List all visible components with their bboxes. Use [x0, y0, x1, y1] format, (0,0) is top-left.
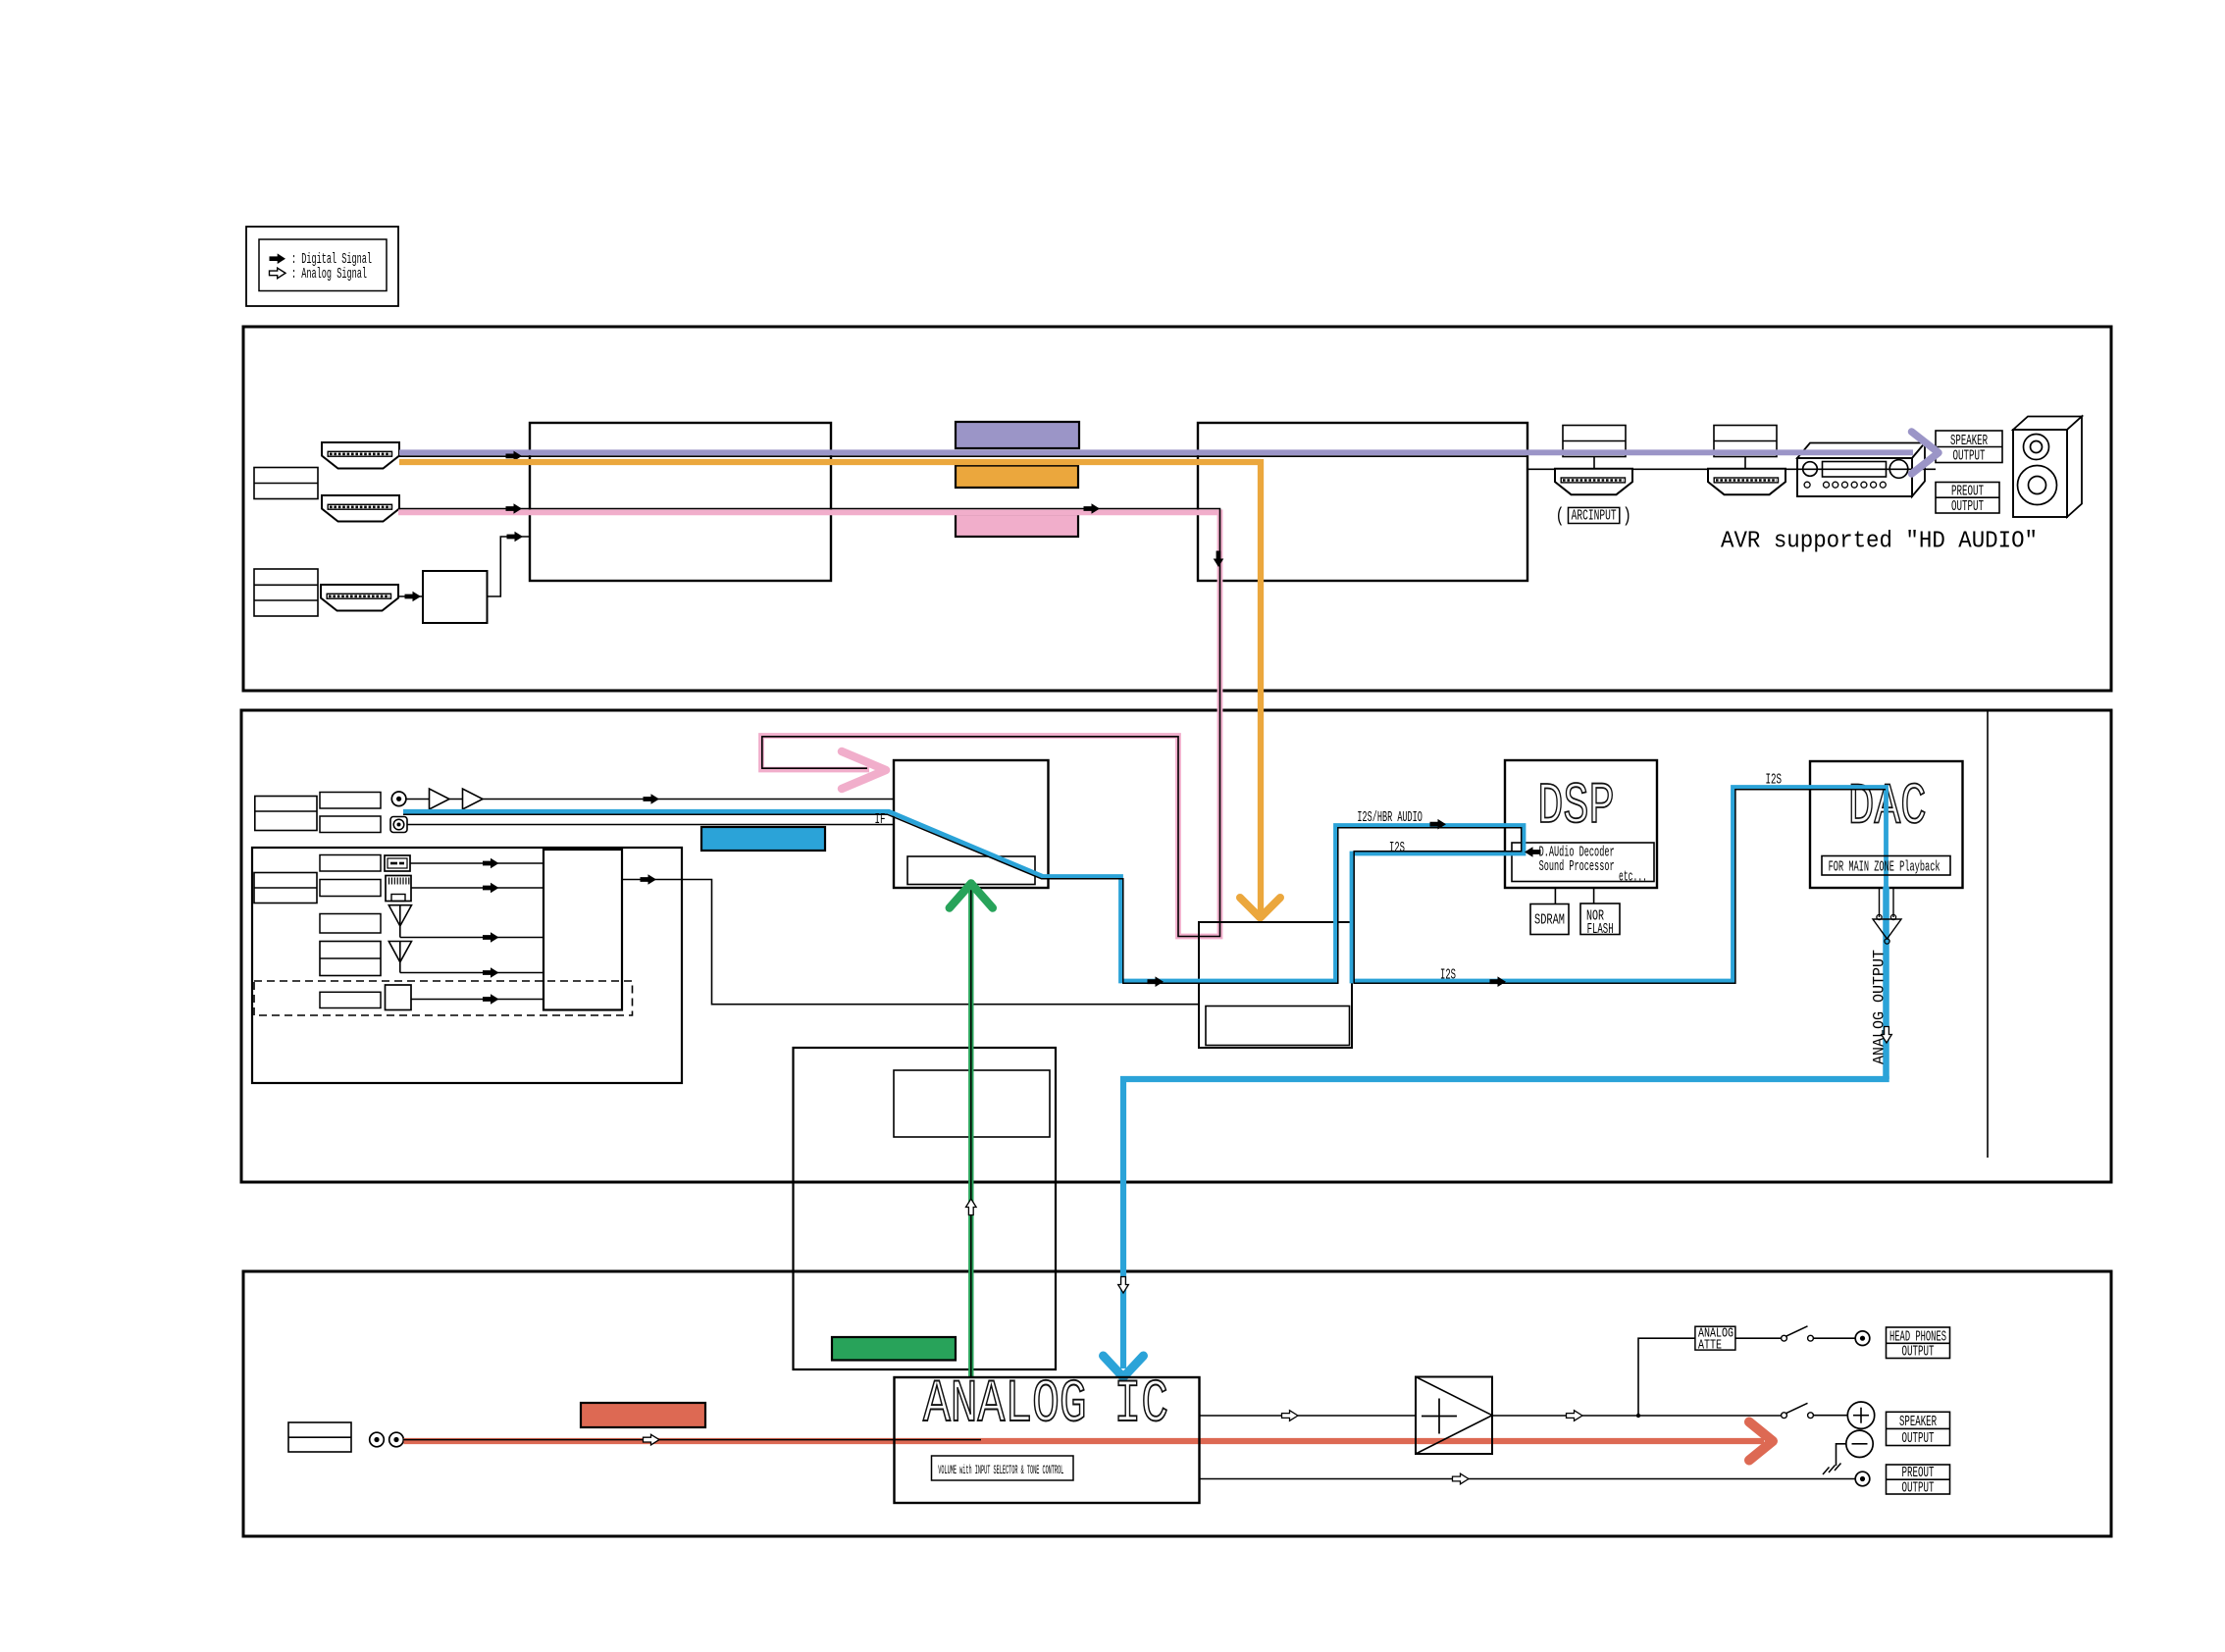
svg-text:OUTPUT: OUTPUT — [1951, 498, 1984, 515]
tuner section box — [252, 848, 682, 1083]
wire boxC to U-SW1 — [488, 537, 531, 596]
amp buffer A1 — [430, 789, 450, 809]
wire ATTE to switch — [1735, 1337, 1782, 1339]
svg-text:SPEAKER: SPEAKER — [1899, 1414, 1937, 1430]
wire ANT1 to selector — [400, 937, 543, 939]
HDMI connector J3 — [321, 585, 398, 611]
svg-text:PREOUT: PREOUT — [1951, 484, 1984, 500]
wire green (black companion) — [970, 885, 972, 1378]
stub box 2 — [1744, 457, 1746, 469]
arrow J3-boxC — [405, 592, 422, 602]
top section frame — [243, 327, 2111, 691]
arrow J1 wire — [506, 451, 523, 462]
DAC output stub lines — [1879, 888, 1881, 917]
wire J5 to DIR — [407, 824, 894, 826]
legend inner box — [259, 239, 387, 291]
arrow I2S codec out — [1148, 976, 1164, 987]
svg-text:ARCINPUT: ARCINPUT — [1572, 508, 1617, 525]
junction dot — [1636, 1414, 1640, 1418]
blue I2S route — [403, 788, 1887, 982]
AVR display window — [1823, 462, 1887, 478]
arrow J4 wire — [644, 794, 660, 804]
analog-in name box 1 — [320, 793, 381, 809]
amp buffer A2 — [463, 789, 484, 809]
source label box A (2 rows) — [254, 468, 318, 499]
ARC INPUT label — [1569, 507, 1620, 523]
wire DSP-SDRAM — [1554, 888, 1556, 904]
legend patch blue — [701, 827, 825, 851]
svg-text:I2S: I2S — [1440, 967, 1456, 984]
tuner name box 3 — [320, 914, 381, 934]
RJ45 connector — [386, 876, 411, 902]
ARC input top box — [1563, 426, 1626, 457]
svg-text:FLASH: FLASH — [1587, 921, 1614, 938]
AVR knob left — [1803, 462, 1818, 477]
legend analog arrow — [270, 268, 286, 279]
wire IC to amp — [1200, 1415, 1417, 1417]
svg-text:PREOUT: PREOUT — [1902, 1465, 1935, 1481]
dashed option box — [254, 981, 633, 1015]
wire selector to codec — [622, 880, 1199, 1005]
arrow option wire — [483, 994, 499, 1005]
speaker woofer — [2018, 466, 2057, 505]
analog signal arrow on DAC out — [1882, 1027, 1892, 1044]
wire option to selector — [411, 999, 543, 1001]
arrow J2 wire b — [1084, 503, 1101, 514]
ANALOG ATTE box — [1695, 1326, 1735, 1350]
orange band vertical — [1258, 459, 1264, 913]
svg-text:I2S: I2S — [1766, 772, 1783, 789]
svg-text:etc...: etc... — [1619, 868, 1647, 885]
tall volume box — [794, 1048, 1057, 1369]
codec inner box — [1206, 1007, 1350, 1046]
HDMI connector to AVR — [1708, 469, 1785, 495]
AVR knob right — [1889, 460, 1908, 479]
analog-in name box 2 — [320, 816, 381, 833]
HDMI connector J2 — [322, 495, 399, 522]
svg-text:FOR MAIN ZONE Playback: FOR MAIN ZONE Playback — [1829, 859, 1940, 876]
FOR MAIN ZONE Playback box — [1822, 856, 1950, 876]
blue arrowhead into ANALOG IC — [1104, 1356, 1144, 1377]
legend patch green — [832, 1337, 956, 1361]
legend patch orange — [956, 466, 1078, 489]
svg-text:Sound Processor: Sound Processor — [1539, 858, 1615, 875]
arrow J2 wire a — [506, 503, 523, 514]
HDMI connector ARC — [1555, 469, 1632, 495]
analog output blue to IC — [1120, 1076, 1126, 1368]
HDMI connector J1 (BD/DVD) — [322, 442, 399, 469]
arrow I2S to DAC riser — [1490, 976, 1507, 987]
DAC box — [1810, 761, 1963, 888]
svg-text:ATTE: ATTE — [1698, 1337, 1722, 1353]
volume inner box — [894, 1070, 1050, 1137]
LAN name box — [320, 880, 381, 897]
headphone switch — [1782, 1335, 1787, 1341]
wire J7 to ANALOG IC — [403, 1439, 981, 1441]
analog arrow IC-amp — [1282, 1411, 1299, 1421]
arrow boxC-USW1 — [507, 532, 524, 542]
stub ARC box — [1593, 457, 1595, 469]
legend outer box — [246, 227, 398, 306]
option name box — [320, 992, 381, 1007]
power amp triangle — [1416, 1377, 1492, 1455]
SDRAM box — [1530, 904, 1569, 935]
digital input selector box — [543, 850, 622, 1010]
arrow I2S into DSP — [1430, 819, 1447, 830]
wire to headphone branch — [1638, 1338, 1695, 1416]
analog arrow preout — [1453, 1473, 1470, 1484]
wire IC preout — [1200, 1478, 1856, 1480]
svg-text:OUTPUT: OUTPUT — [1953, 447, 1986, 464]
arrow pink descent — [1214, 551, 1224, 568]
phono label box (2 rows) — [288, 1422, 351, 1452]
svg-text:DSP: DSP — [1537, 774, 1615, 841]
network label box (2 rows) — [254, 873, 317, 903]
arrow RJ45 wire — [483, 883, 499, 894]
svg-text:SPEAKER: SPEAKER — [1950, 433, 1988, 449]
analog arrow on phono wire — [644, 1434, 660, 1445]
analog signal arrow on blue drop — [1118, 1277, 1129, 1294]
NOR FLASH box — [1580, 903, 1620, 935]
bottom section frame — [243, 1271, 2111, 1536]
preout jack — [1855, 1471, 1870, 1486]
RCA jack J5 — [390, 817, 407, 833]
USB name box — [320, 855, 381, 872]
svg-text:OUTPUT: OUTPUT — [1902, 1430, 1935, 1447]
AVR buttons — [1804, 482, 1810, 488]
arrow ANT1 wire — [483, 932, 499, 943]
digital IF receiver box (DIR) — [894, 760, 1049, 888]
middle section frame — [241, 710, 2111, 1182]
green band vertical — [968, 890, 973, 1377]
wire ANT2 to selector — [400, 972, 543, 974]
wire amp to speaker switch — [1492, 1415, 1782, 1417]
tuner name box 4 (2 rows) — [320, 942, 381, 976]
SPEAKER OUTPUT box (bottom) — [1887, 1412, 1950, 1445]
svg-text:ANALOG IC: ANALOG IC — [923, 1370, 1168, 1439]
arrow ANT2 wire — [483, 967, 499, 978]
HDMI out top box 2 — [1714, 426, 1777, 457]
source label box B (3 rows) — [254, 569, 318, 616]
svg-text:): ) — [1623, 506, 1631, 529]
speaker cabinet — [2013, 417, 2082, 431]
wire switch to plus terminal — [1813, 1415, 1847, 1417]
svg-text:OUTPUT: OUTPUT — [1902, 1344, 1935, 1361]
wire switch to HP jack — [1813, 1337, 1855, 1339]
orange band horizontal — [399, 459, 1261, 465]
legend patch pink — [956, 514, 1078, 537]
svg-text:SDRAM: SDRAM — [1534, 912, 1565, 929]
wire J1 to U-SW1 (black in purple) — [399, 455, 1527, 457]
power amp plus — [1422, 1416, 1457, 1418]
legend patch purple — [956, 422, 1079, 448]
HDMI switch box U-SW1 — [530, 423, 831, 581]
speaker plus terminal — [1847, 1402, 1874, 1428]
svg-text:AVR supported "HD AUDIO": AVR supported "HD AUDIO" — [1721, 529, 2038, 555]
VOLUME label box — [932, 1456, 1074, 1480]
headphone jack — [1855, 1331, 1870, 1346]
speaker switch — [1782, 1413, 1787, 1419]
legend patch red — [581, 1403, 705, 1427]
DSP inner box — [1512, 843, 1654, 882]
antenna ANT1 — [388, 905, 411, 926]
arrow selector out — [641, 874, 657, 885]
box C (converter) — [423, 571, 488, 623]
pink band HDMI2 horizontal — [398, 512, 1220, 936]
svg-text:I2S: I2S — [1389, 840, 1405, 856]
DIR inner box — [907, 856, 1035, 885]
arrow I2S out of DSP — [1525, 847, 1541, 857]
USB connector — [385, 855, 410, 871]
RCA jack J6 — [370, 1432, 385, 1447]
analog arrow amp out — [1567, 1411, 1583, 1421]
svg-text:(: ( — [1556, 506, 1565, 529]
orange arrowhead down — [1240, 898, 1280, 918]
DSP box — [1505, 760, 1657, 888]
RCA jack J7 — [389, 1432, 404, 1447]
PREOUT OUTPUT box (bottom) — [1887, 1465, 1950, 1494]
wire RJ45 to selector — [411, 887, 543, 889]
antenna ANT2 — [388, 942, 411, 962]
ground wire — [1837, 1444, 1846, 1466]
middle section partition line — [1987, 710, 1989, 1158]
PREOUT OUTPUT box (top) — [1936, 483, 1999, 514]
DAC output buffer triangle — [1873, 919, 1901, 939]
purple HDMI signal band — [399, 449, 1913, 455]
svg-text:OUTPUT: OUTPUT — [1902, 1479, 1935, 1496]
wire J2 (black in pink) — [398, 509, 1220, 937]
option module square — [386, 985, 412, 1010]
analog-in label box (2 rows) — [255, 797, 317, 831]
power amp box — [1416, 1377, 1492, 1455]
wire J3 to box C — [398, 595, 423, 597]
wire J4 to DIR — [406, 799, 894, 800]
legend digital arrow — [270, 253, 286, 264]
HDMI audio codec box — [1199, 922, 1352, 1048]
red analog band — [404, 1438, 1765, 1444]
analog output blue vertical — [1883, 887, 1889, 1079]
wire U-SW2 to AVR — [1527, 468, 1936, 470]
HEAD PHONES OUTPUT box — [1887, 1327, 1950, 1359]
wire USB to selector — [410, 862, 543, 864]
svg-text:ANALOG OUTPUT: ANALOG OUTPUT — [1871, 950, 1889, 1064]
ground symbol — [1823, 1468, 1830, 1475]
svg-text:: Analog Signal: : Analog Signal — [291, 266, 367, 283]
svg-text:VOLUME with INPUT SELECTOR & T: VOLUME with INPUT SELECTOR & TONE CONTRO… — [938, 1463, 1063, 1477]
svg-text:I2S/HBR AUDIO: I2S/HBR AUDIO — [1357, 809, 1423, 826]
AVR receiver body — [1797, 443, 1925, 459]
green arrowhead up — [950, 884, 993, 908]
SPEAKER OUTPUT box (top) — [1936, 431, 2002, 463]
HDMI repeater box U-SW2 — [1198, 423, 1527, 581]
analog output blue horizontal — [1120, 1076, 1889, 1082]
purple signal arrowhead — [1912, 432, 1940, 474]
arrow USB wire — [483, 858, 499, 869]
speaker tweeter — [2024, 435, 2049, 460]
wire DSP-NORFLASH — [1593, 888, 1595, 903]
analog signal arrow on green — [966, 1199, 977, 1215]
ANALOG IC box — [895, 1377, 1200, 1503]
speaker minus terminal — [1846, 1430, 1873, 1457]
wire I2S (black companion) — [403, 790, 1886, 984]
pink arrowhead into DIR — [842, 751, 886, 789]
RCA jack J4 — [391, 792, 406, 806]
red arrowhead — [1749, 1422, 1773, 1461]
